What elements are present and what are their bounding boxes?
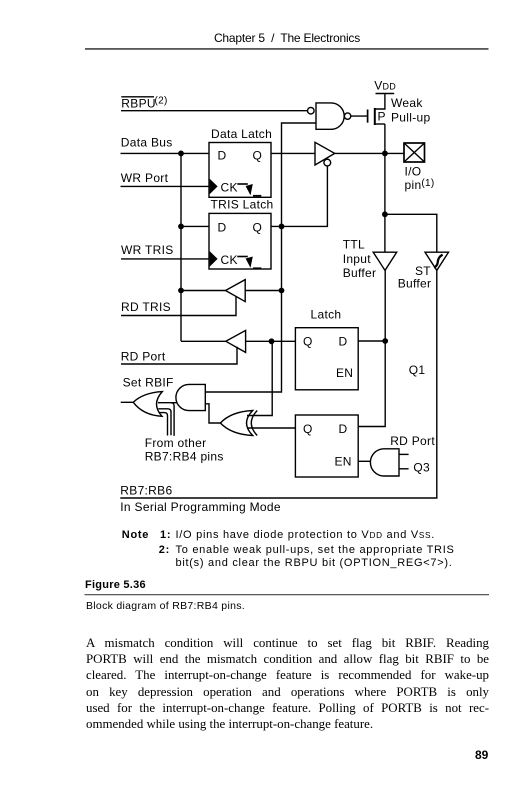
svg-text:CK: CK — [221, 180, 238, 194]
svg-text:Pull-up: Pull-up — [391, 111, 430, 125]
svg-text:Input: Input — [343, 252, 372, 266]
svg-text:P: P — [378, 110, 386, 124]
svg-text:VDD: VDD — [374, 79, 396, 93]
svg-text:TRIS Latch: TRIS Latch — [211, 198, 274, 212]
svg-text:RB7:RB6: RB7:RB6 — [120, 483, 172, 497]
svg-text:RD Port: RD Port — [121, 349, 166, 363]
svg-text:Q3: Q3 — [413, 461, 430, 475]
svg-text:RB7:RB4 pins: RB7:RB4 pins — [145, 450, 224, 464]
svg-text:RBPU: RBPU — [121, 97, 156, 111]
svg-text:pin(1): pin(1) — [405, 178, 435, 192]
svg-text:Q: Q — [303, 334, 313, 348]
svg-text:Buffer: Buffer — [343, 266, 377, 280]
svg-text:Latch: Latch — [311, 308, 342, 322]
svg-text:TTL: TTL — [343, 238, 365, 252]
svg-text:Q: Q — [303, 422, 313, 436]
svg-text:WR Port: WR Port — [121, 171, 169, 185]
svg-text:WR TRIS: WR TRIS — [121, 243, 174, 257]
svg-text:(2): (2) — [155, 96, 168, 107]
svg-text:RD TRIS: RD TRIS — [121, 300, 171, 314]
svg-text:In Serial Programming Mode: In Serial Programming Mode — [120, 500, 281, 514]
svg-text:D: D — [339, 422, 348, 436]
svg-text:EN: EN — [336, 366, 353, 380]
svg-text:From other: From other — [145, 436, 207, 450]
svg-text:Data Latch: Data Latch — [211, 127, 272, 141]
svg-text:D: D — [218, 221, 227, 235]
svg-text:Set RBIF: Set RBIF — [123, 375, 174, 389]
svg-text:RD Port: RD Port — [390, 434, 435, 448]
svg-text:Q1: Q1 — [409, 363, 426, 377]
svg-text:I/O: I/O — [405, 164, 422, 178]
svg-text:D: D — [218, 148, 227, 162]
svg-text:Q: Q — [253, 148, 263, 162]
svg-text:Buffer: Buffer — [398, 277, 432, 291]
svg-text:CK: CK — [221, 253, 238, 267]
svg-text:Q: Q — [253, 221, 263, 235]
svg-text:EN: EN — [335, 454, 352, 468]
svg-text:Data Bus: Data Bus — [121, 135, 173, 149]
svg-text:Weak: Weak — [391, 96, 423, 110]
svg-text:D: D — [339, 334, 348, 348]
